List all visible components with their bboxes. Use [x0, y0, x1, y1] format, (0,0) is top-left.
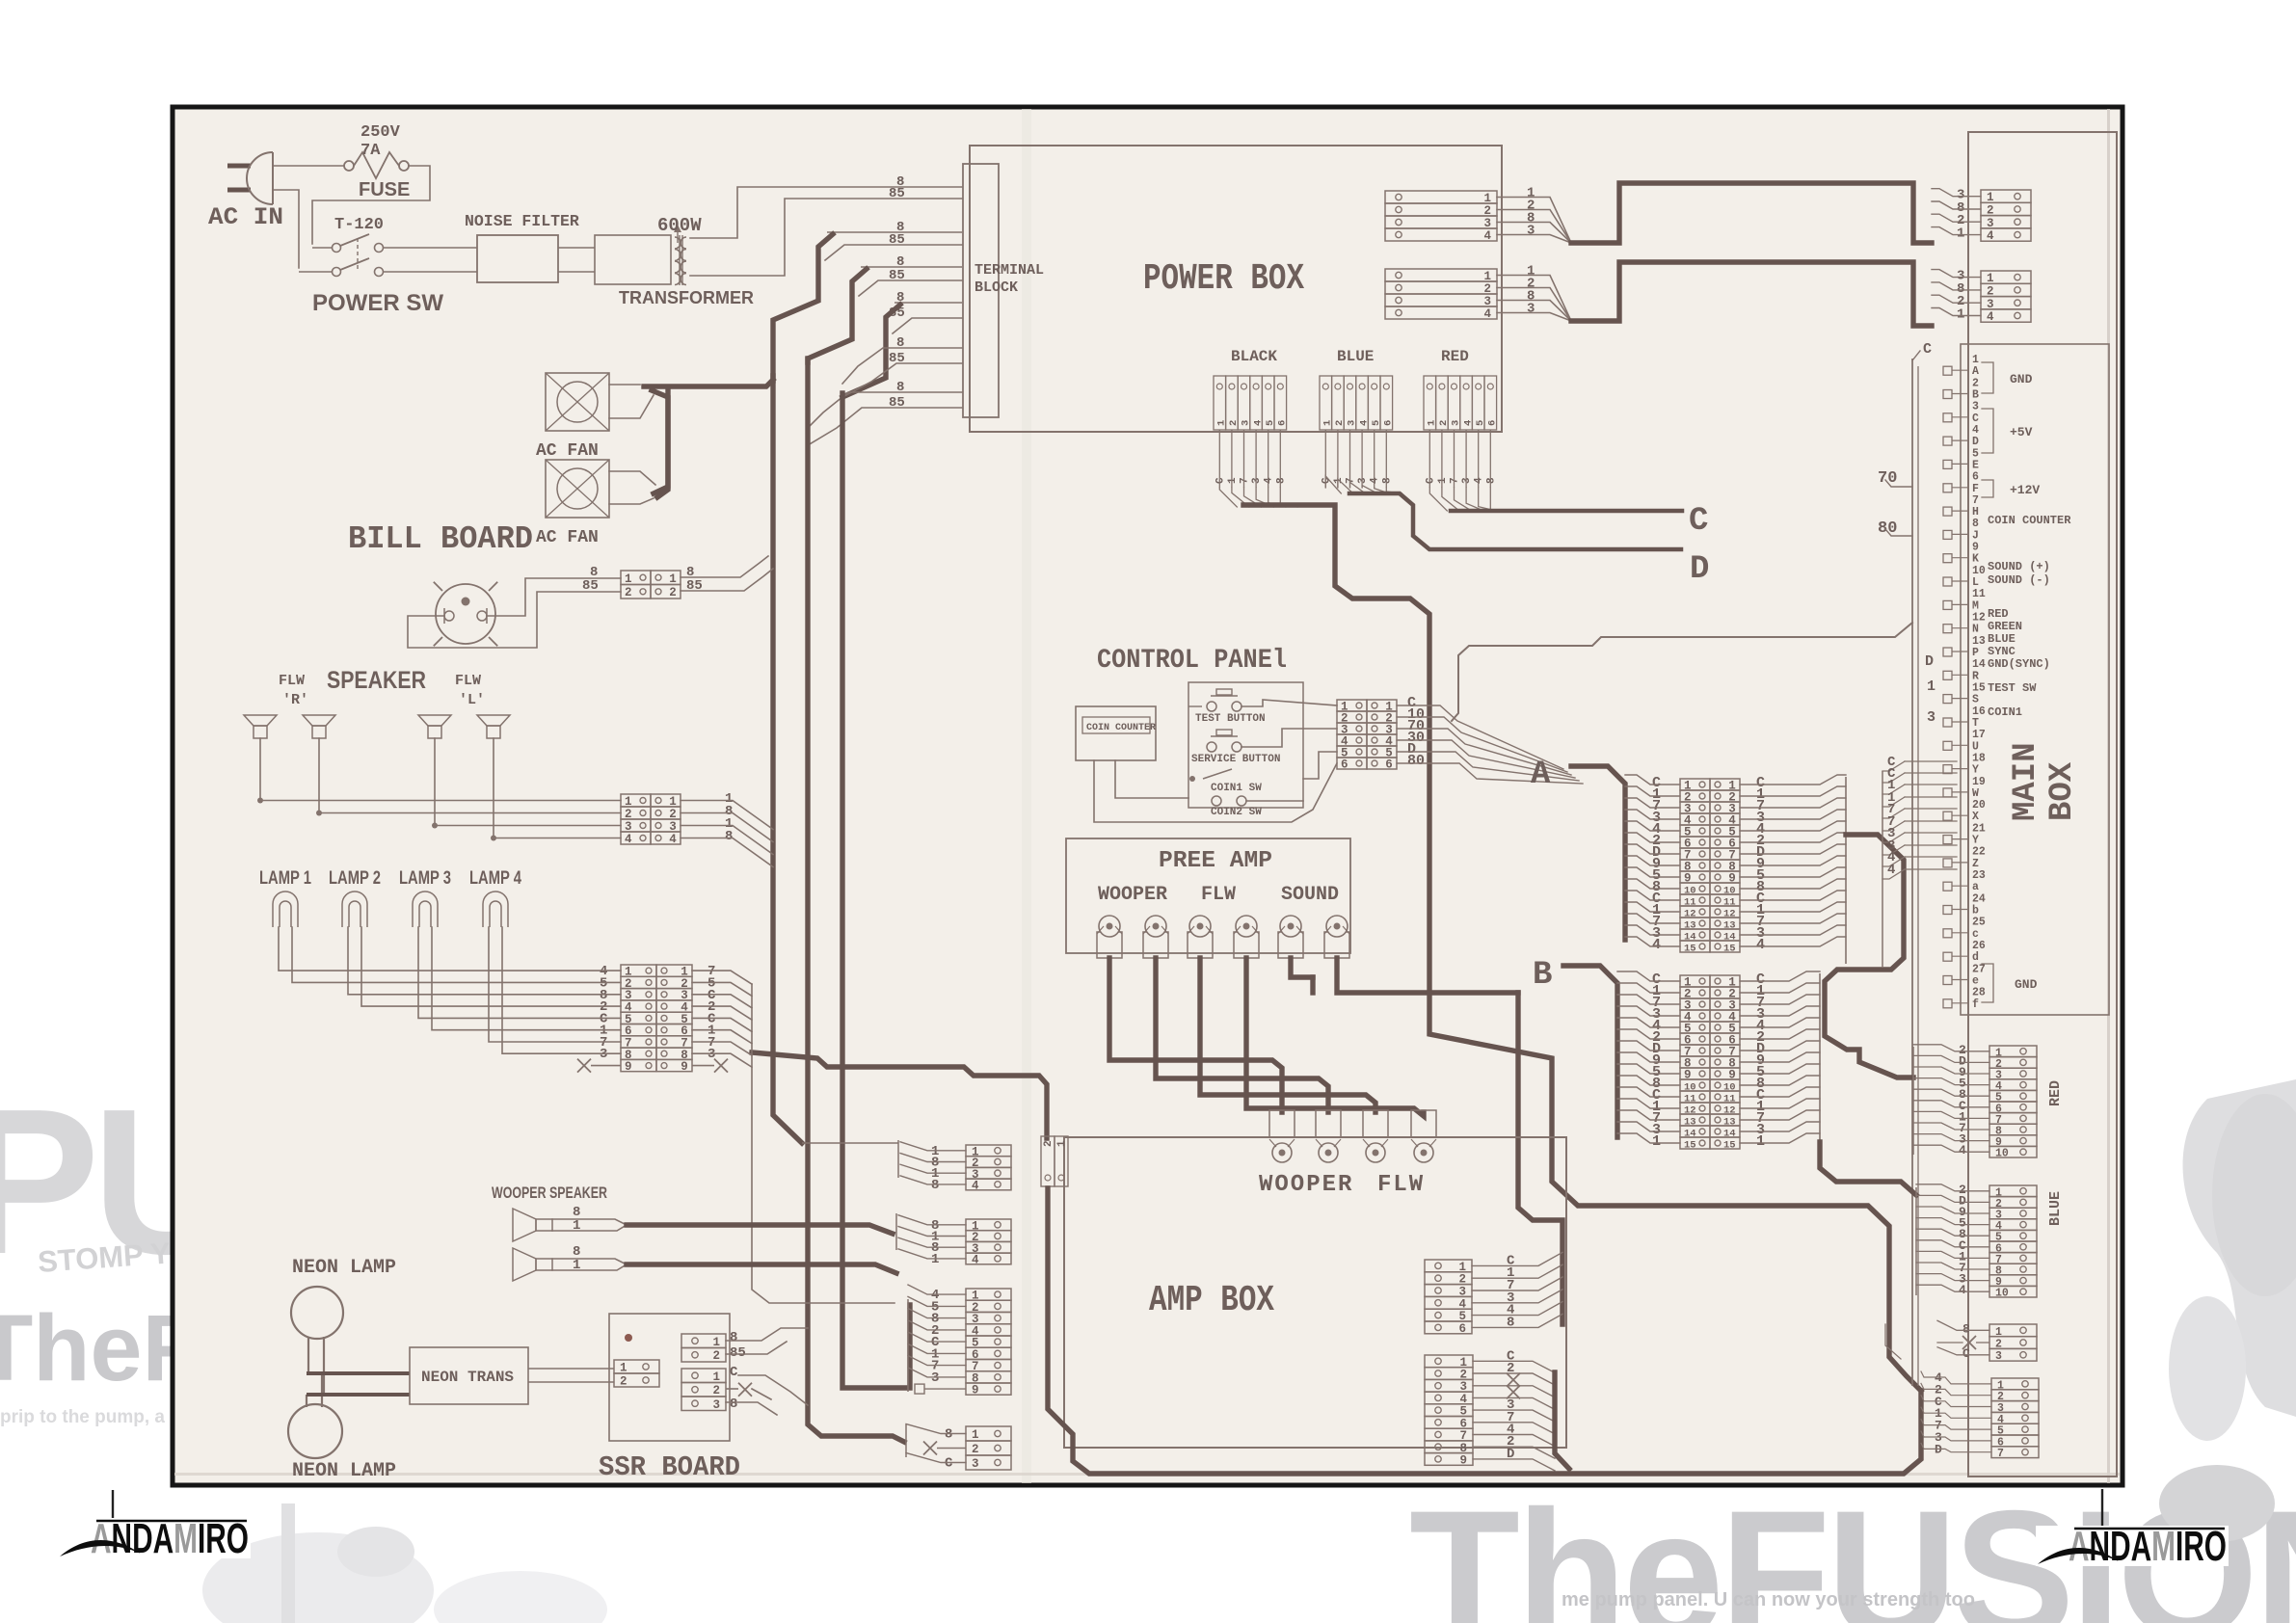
- svg-text:S: S: [1972, 694, 1979, 706]
- svg-text:2: 2: [713, 1349, 721, 1363]
- svg-text:14: 14: [1723, 932, 1736, 944]
- svg-text:C: C: [1962, 1346, 1970, 1361]
- svg-text:26: 26: [1972, 940, 1986, 952]
- svg-text:1: 1: [625, 795, 632, 809]
- svg-text:9: 9: [681, 1060, 688, 1074]
- svg-text:4: 4: [1264, 477, 1275, 484]
- svg-text:BLUE: BLUE: [2047, 1191, 2064, 1226]
- svg-text:ANDAMIRO: ANDAMIRO: [2069, 1523, 2227, 1570]
- svg-text:14: 14: [1972, 658, 1986, 671]
- svg-text:LAMP 4: LAMP 4: [469, 868, 521, 889]
- svg-text:SPEAKER: SPEAKER: [327, 667, 426, 694]
- svg-text:FLW: FLW: [1377, 1172, 1425, 1198]
- svg-text:1: 1: [1995, 1326, 2002, 1339]
- svg-text:12: 12: [1684, 1105, 1696, 1117]
- svg-text:3: 3: [713, 1398, 721, 1412]
- svg-text:SOUND (+): SOUND (+): [1988, 560, 2050, 573]
- svg-text:MAIN: MAIN: [2008, 742, 2044, 821]
- svg-text:6: 6: [1972, 471, 1979, 484]
- svg-text:3: 3: [1527, 224, 1535, 239]
- svg-text:RED: RED: [1988, 607, 2009, 621]
- svg-text:FUSE: FUSE: [359, 179, 410, 200]
- svg-text:COIN1 SW: COIN1 SW: [1211, 783, 1262, 794]
- svg-text:D: D: [1972, 436, 1979, 448]
- svg-text:3: 3: [1927, 709, 1936, 726]
- svg-text:9: 9: [1972, 542, 1979, 554]
- svg-text:25: 25: [1972, 917, 1986, 929]
- svg-text:7: 7: [1240, 477, 1251, 484]
- svg-text:1: 1: [1957, 307, 1964, 323]
- svg-text:a: a: [1972, 881, 1979, 893]
- svg-text:10: 10: [1684, 886, 1696, 897]
- svg-text:2: 2: [669, 586, 677, 599]
- svg-text:GND: GND: [2010, 372, 2033, 386]
- svg-text:12: 12: [1723, 909, 1736, 920]
- svg-text:4: 4: [1370, 477, 1381, 484]
- svg-text:C: C: [1923, 341, 1932, 358]
- svg-text:2: 2: [1043, 1140, 1055, 1147]
- svg-text:2: 2: [1484, 204, 1492, 218]
- svg-text:+12V: +12V: [2010, 483, 2040, 497]
- svg-text:1: 1: [1972, 354, 1979, 366]
- svg-text:4: 4: [1756, 937, 1765, 953]
- svg-text:WOOPER SPEAKER: WOOPER SPEAKER: [492, 1184, 607, 1202]
- svg-text:250V: 250V: [360, 123, 401, 142]
- svg-text:27: 27: [1972, 963, 1986, 975]
- svg-text:BLACK: BLACK: [1231, 348, 1277, 365]
- svg-text:4: 4: [1987, 310, 1994, 324]
- svg-text:2: 2: [1484, 282, 1492, 296]
- svg-text:15: 15: [1972, 682, 1986, 695]
- svg-text:AC IN: AC IN: [208, 203, 283, 231]
- svg-text:9: 9: [972, 1384, 979, 1397]
- svg-text:1: 1: [1927, 678, 1936, 695]
- svg-text:W: W: [1972, 787, 1979, 800]
- svg-text:COIN COUNTER: COIN COUNTER: [1086, 723, 1156, 733]
- svg-text:3: 3: [1987, 217, 1994, 230]
- svg-text:4: 4: [972, 1179, 979, 1192]
- svg-text:11: 11: [1684, 1094, 1696, 1105]
- svg-text:8: 8: [1381, 477, 1393, 484]
- svg-text:15: 15: [1684, 944, 1696, 955]
- svg-text:B: B: [1972, 389, 1979, 402]
- svg-text:2: 2: [1987, 284, 1994, 298]
- svg-text:10: 10: [1723, 886, 1736, 897]
- svg-text:X: X: [1972, 811, 1979, 823]
- svg-text:9: 9: [1684, 1069, 1692, 1082]
- svg-text:E: E: [1972, 459, 1979, 471]
- svg-text:4: 4: [1474, 477, 1485, 484]
- svg-text:T-120: T-120: [334, 216, 384, 234]
- svg-text:3: 3: [1527, 302, 1535, 317]
- svg-text:7A: 7A: [360, 142, 381, 160]
- svg-text:BLOCK: BLOCK: [974, 279, 1018, 296]
- svg-text:3: 3: [1972, 401, 1979, 413]
- svg-text:1: 1: [669, 572, 677, 586]
- svg-text:600W: 600W: [657, 215, 702, 236]
- svg-text:LAMP 2: LAMP 2: [329, 868, 381, 889]
- svg-text:FLW: FLW: [1201, 884, 1236, 906]
- svg-text:1: 1: [1756, 1133, 1765, 1150]
- svg-text:FLW: FLW: [455, 673, 481, 689]
- svg-text:5: 5: [1972, 447, 1979, 460]
- svg-text:c: c: [1972, 928, 1979, 941]
- svg-text:U: U: [1972, 740, 1979, 753]
- svg-text:1: 1: [1957, 226, 1964, 242]
- svg-text:H: H: [1972, 506, 1979, 519]
- svg-text:22: 22: [1972, 846, 1986, 859]
- svg-text:18: 18: [1972, 752, 1986, 764]
- svg-text:1: 1: [669, 795, 677, 809]
- svg-text:8: 8: [730, 1397, 737, 1412]
- svg-text:6: 6: [1383, 420, 1395, 426]
- svg-text:3: 3: [669, 820, 677, 834]
- svg-text:PREE AMP: PREE AMP: [1159, 848, 1272, 874]
- svg-text:13: 13: [1723, 920, 1736, 932]
- svg-text:2: 2: [625, 586, 632, 599]
- svg-text:14: 14: [1684, 932, 1696, 944]
- svg-text:13: 13: [1684, 1117, 1696, 1129]
- svg-text:'L': 'L': [459, 692, 485, 708]
- svg-text:4: 4: [1972, 424, 1979, 437]
- svg-text:SSR BOARD: SSR BOARD: [599, 1451, 740, 1483]
- svg-text:12: 12: [1684, 909, 1696, 920]
- svg-text:SERVICE BUTTON: SERVICE BUTTON: [1191, 754, 1280, 765]
- svg-text:2: 2: [1995, 1339, 2002, 1351]
- svg-text:C: C: [1425, 477, 1436, 484]
- svg-text:14: 14: [1684, 1129, 1696, 1140]
- svg-text:BLUE: BLUE: [1988, 632, 2016, 646]
- svg-text:14: 14: [1723, 1129, 1736, 1140]
- svg-text:TheF: TheF: [0, 1295, 200, 1400]
- svg-text:11: 11: [1723, 1094, 1736, 1105]
- svg-text:CONTROL PANEl: CONTROL PANEl: [1097, 646, 1287, 676]
- svg-text:10: 10: [1723, 1082, 1736, 1094]
- svg-text:3: 3: [1461, 477, 1473, 484]
- svg-text:LAMP 3: LAMP 3: [399, 868, 451, 889]
- svg-text:C: C: [1972, 412, 1979, 425]
- svg-text:NEON LAMP: NEON LAMP: [292, 1257, 396, 1279]
- svg-text:NEON LAMP: NEON LAMP: [292, 1460, 396, 1482]
- svg-text:3: 3: [1357, 477, 1369, 484]
- svg-text:SOUND (-): SOUND (-): [1988, 573, 2050, 587]
- svg-text:16: 16: [1972, 705, 1986, 718]
- svg-text:3: 3: [1484, 295, 1492, 308]
- svg-text:1: 1: [1227, 477, 1239, 484]
- svg-text:e: e: [1972, 975, 1979, 988]
- svg-text:COIN COUNTER: COIN COUNTER: [1988, 514, 2071, 527]
- svg-text:17: 17: [1972, 729, 1986, 741]
- svg-text:2: 2: [620, 1375, 627, 1389]
- svg-text:3: 3: [931, 1370, 939, 1386]
- svg-text:POWER SW: POWER SW: [312, 290, 443, 316]
- svg-text:11: 11: [1684, 897, 1696, 909]
- svg-text:6: 6: [1459, 1322, 1467, 1336]
- svg-text:9: 9: [1684, 872, 1692, 886]
- svg-text:FLW: FLW: [279, 673, 305, 689]
- svg-text:85: 85: [889, 186, 905, 201]
- svg-text:8: 8: [945, 1427, 952, 1443]
- svg-text:+5V: +5V: [2010, 425, 2033, 439]
- svg-text:20: 20: [1972, 799, 1986, 811]
- svg-text:POWER BOX: POWER BOX: [1143, 258, 1304, 300]
- svg-text:T: T: [1972, 717, 1979, 730]
- svg-text:12: 12: [1972, 612, 1986, 625]
- svg-text:2: 2: [972, 1443, 979, 1456]
- svg-text:3: 3: [1484, 217, 1492, 230]
- svg-text:RED: RED: [1441, 348, 1469, 365]
- svg-text:1: 1: [1987, 272, 1994, 285]
- svg-text:A: A: [1531, 757, 1551, 793]
- svg-text:85: 85: [582, 578, 599, 594]
- svg-text:C: C: [1215, 477, 1226, 484]
- svg-text:15: 15: [1723, 944, 1736, 955]
- svg-text:TEST SW: TEST SW: [1988, 681, 2037, 695]
- svg-text:NEON TRANS: NEON TRANS: [421, 1369, 514, 1386]
- svg-text:6: 6: [1487, 420, 1499, 426]
- svg-text:b: b: [1972, 905, 1979, 918]
- svg-text:11: 11: [1972, 588, 1986, 600]
- svg-text:15: 15: [1723, 1140, 1736, 1152]
- svg-text:4: 4: [1652, 937, 1661, 953]
- svg-text:80: 80: [1407, 753, 1425, 769]
- svg-text:7: 7: [1450, 477, 1461, 484]
- svg-text:8: 8: [1972, 518, 1979, 530]
- svg-text:BLUE: BLUE: [1337, 348, 1374, 365]
- svg-text:P: P: [1972, 647, 1979, 659]
- svg-text:D: D: [1925, 653, 1934, 670]
- svg-text:9: 9: [625, 1060, 632, 1074]
- svg-text:1: 1: [1056, 1140, 1068, 1147]
- svg-text:1: 1: [713, 1336, 721, 1349]
- svg-text:13: 13: [1684, 920, 1696, 932]
- svg-text:me pump panel. U can now your: me pump panel. U can now your strength t…: [1562, 1589, 1975, 1610]
- svg-text:L: L: [1972, 576, 1979, 589]
- svg-text:6: 6: [1385, 758, 1393, 772]
- svg-text:COIN2 SW: COIN2 SW: [1211, 807, 1262, 818]
- svg-text:AMP BOX: AMP BOX: [1149, 1280, 1274, 1321]
- svg-text:70: 70: [1878, 469, 1897, 488]
- svg-text:GND(SYNC): GND(SYNC): [1988, 657, 2050, 671]
- svg-text:3: 3: [600, 1047, 607, 1062]
- svg-text:24: 24: [1972, 892, 1986, 905]
- svg-text:f: f: [1972, 998, 1979, 1011]
- svg-text:TRANSFORMER: TRANSFORMER: [619, 288, 754, 307]
- svg-text:8: 8: [730, 1330, 737, 1345]
- svg-text:BOX: BOX: [2044, 761, 2081, 821]
- svg-text:6: 6: [1277, 420, 1289, 426]
- svg-text:TERMINAL: TERMINAL: [974, 262, 1044, 279]
- svg-text:8: 8: [725, 829, 733, 844]
- svg-text:Y: Y: [1972, 764, 1979, 777]
- svg-text:B: B: [1533, 957, 1552, 994]
- svg-text:2: 2: [713, 1384, 721, 1397]
- svg-text:9: 9: [1460, 1453, 1468, 1467]
- svg-text:Y: Y: [1972, 835, 1979, 847]
- svg-text:9: 9: [1728, 1069, 1736, 1082]
- svg-text:1: 1: [1437, 477, 1449, 484]
- svg-text:4: 4: [1959, 1143, 1966, 1157]
- svg-text:10: 10: [1684, 1082, 1696, 1094]
- svg-text:8: 8: [1485, 477, 1497, 484]
- svg-text:M: M: [1972, 599, 1979, 612]
- svg-text:AC FAN: AC FAN: [536, 528, 599, 547]
- svg-text:LAMP 1: LAMP 1: [259, 868, 311, 889]
- svg-text:WOOPER: WOOPER: [1259, 1172, 1353, 1198]
- svg-text:8: 8: [1962, 1321, 1970, 1336]
- svg-text:1: 1: [713, 1370, 721, 1384]
- svg-text:11: 11: [1723, 897, 1736, 909]
- svg-text:9: 9: [1728, 872, 1736, 886]
- svg-text:4: 4: [1987, 229, 1994, 243]
- svg-text:80: 80: [1878, 519, 1897, 538]
- svg-text:J: J: [1972, 529, 1979, 542]
- svg-text:3: 3: [1251, 477, 1263, 484]
- svg-text:SYNC: SYNC: [1988, 645, 2016, 658]
- svg-text:7: 7: [1972, 494, 1979, 507]
- svg-text:23: 23: [1972, 869, 1986, 882]
- svg-text:1: 1: [620, 1362, 627, 1375]
- svg-text:12: 12: [1723, 1105, 1736, 1117]
- svg-text:4: 4: [972, 1253, 979, 1266]
- svg-text:TEST BUTTON: TEST BUTTON: [1195, 713, 1266, 725]
- svg-text:GND: GND: [2015, 977, 2038, 992]
- svg-text:1: 1: [1987, 191, 1994, 204]
- svg-text:4: 4: [1484, 229, 1492, 243]
- svg-text:10: 10: [1995, 1148, 2009, 1160]
- svg-text:ANDAMIRO: ANDAMIRO: [91, 1515, 249, 1562]
- svg-text:3: 3: [625, 820, 632, 834]
- svg-text:K: K: [1972, 553, 1979, 566]
- svg-text:2: 2: [1972, 377, 1979, 389]
- svg-text:8: 8: [931, 1178, 939, 1193]
- svg-text:RED: RED: [2047, 1080, 2064, 1106]
- svg-text:6: 6: [1341, 758, 1348, 772]
- svg-text:1: 1: [972, 1428, 979, 1442]
- svg-text:Z: Z: [1972, 858, 1979, 870]
- svg-text:1: 1: [931, 1252, 939, 1267]
- svg-text:2: 2: [669, 808, 677, 821]
- svg-text:2: 2: [625, 808, 632, 821]
- svg-text:SOUND: SOUND: [1281, 884, 1339, 906]
- svg-text:4: 4: [1959, 1283, 1966, 1297]
- svg-text:13: 13: [1972, 635, 1986, 648]
- svg-text:3: 3: [1995, 1350, 2002, 1363]
- svg-text:A: A: [1972, 365, 1979, 378]
- svg-text:19: 19: [1972, 776, 1986, 788]
- svg-text:8: 8: [1275, 477, 1287, 484]
- svg-text:WOOPER: WOOPER: [1098, 884, 1167, 906]
- svg-text:BILL BOARD: BILL BOARD: [348, 521, 533, 557]
- svg-text:1: 1: [1484, 270, 1492, 283]
- svg-text:d: d: [1972, 951, 1979, 964]
- svg-text:15: 15: [1684, 1140, 1696, 1152]
- svg-text:3: 3: [1987, 298, 1994, 311]
- svg-text:1: 1: [1652, 1133, 1661, 1150]
- svg-text:13: 13: [1723, 1117, 1736, 1129]
- svg-text:4: 4: [669, 833, 677, 846]
- svg-text:AC FAN: AC FAN: [536, 441, 599, 461]
- svg-text:NOISE FILTER: NOISE FILTER: [465, 212, 579, 230]
- svg-text:C: C: [1689, 503, 1708, 540]
- svg-text:4: 4: [625, 833, 632, 846]
- svg-text:21: 21: [1972, 822, 1986, 835]
- svg-text:GREEN: GREEN: [1988, 620, 2022, 633]
- svg-text:D: D: [1690, 551, 1709, 588]
- svg-text:85: 85: [730, 1345, 746, 1361]
- svg-text:10: 10: [1972, 565, 1986, 577]
- svg-text:4: 4: [1484, 307, 1492, 321]
- svg-text:R: R: [1972, 670, 1979, 682]
- svg-text:N: N: [1972, 624, 1979, 636]
- svg-text:1: 1: [625, 572, 632, 586]
- svg-text:2: 2: [1987, 204, 1994, 218]
- svg-text:3: 3: [972, 1457, 979, 1471]
- svg-text:7: 7: [1997, 1448, 2004, 1460]
- svg-text:C: C: [945, 1456, 953, 1472]
- svg-text:28: 28: [1972, 987, 1986, 999]
- svg-text:'R': 'R': [282, 692, 308, 708]
- svg-text:1: 1: [1484, 192, 1492, 205]
- svg-text:prip to the pump, a: prip to the pump, a: [0, 1407, 165, 1427]
- svg-text:10: 10: [1995, 1288, 2009, 1300]
- svg-text:COIN1: COIN1: [1988, 705, 2022, 719]
- svg-text:C: C: [730, 1365, 738, 1380]
- svg-text:F: F: [1972, 483, 1979, 495]
